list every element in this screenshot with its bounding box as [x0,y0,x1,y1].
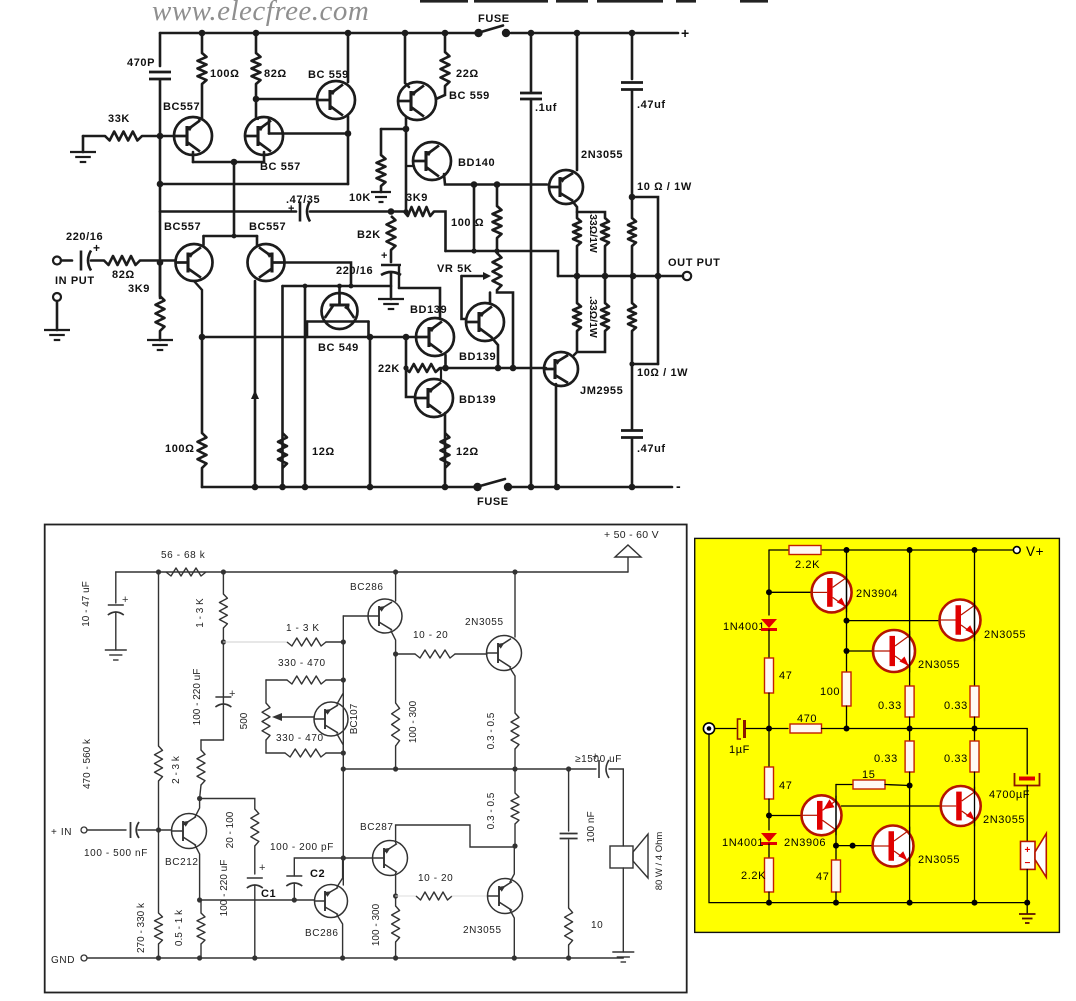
svg-text:−: − [1024,858,1030,869]
svg-text:10 Ω / 1W: 10 Ω / 1W [637,181,692,193]
svg-text:100Ω: 100Ω [210,68,240,80]
wire BC557 Q4 emitter down [194,281,202,337]
wire x836 column [835,785,837,861]
resistor 2.2K lower [765,858,774,892]
svg-text:12Ω: 12Ω [312,446,335,458]
svg-text:V+: V+ [1026,544,1044,559]
wire top rail 50-60V [116,571,628,573]
svg-text:BC287: BC287 [360,822,394,833]
svg-text:BC 557: BC 557 [260,161,301,173]
svg-text:80 W / 4 Ohm: 80 W / 4 Ohm [654,832,665,891]
svg-text:1µF: 1µF [729,744,750,756]
transistor BC557 Q4 [176,244,213,281]
svg-text:56 - 68 k: 56 - 68 k [161,550,206,561]
svg-text:2N3055: 2N3055 [918,854,960,866]
svg-text:B2K: B2K [357,229,381,241]
svg-text:IN PUT: IN PUT [55,275,95,287]
svg-text:+: + [288,203,295,215]
svg-text:100 - 220 uF: 100 - 220 uF [219,860,230,917]
svg-text:100Ω: 100Ω [165,443,195,455]
svg-text:+: + [122,594,129,606]
svg-text:82Ω: 82Ω [112,269,135,281]
wire left return [709,734,769,902]
wire x305 down [304,286,307,487]
output terminal [683,272,691,280]
svg-text:4700µF: 4700µF [989,789,1030,801]
svg-text:1 - 3 K: 1 - 3 K [195,598,206,628]
svg-text:10K: 10K [349,192,371,204]
svg-text:20 - 100: 20 - 100 [225,811,236,848]
wire output right column [1026,729,1028,775]
svg-text:.47uf: .47uf [637,99,666,111]
resistor 47 right [832,860,841,892]
svg-text:.1uf: .1uf [535,102,557,114]
svg-text:OUT PUT: OUT PUT [668,257,720,269]
wire 470-560k column top [158,572,160,746]
svg-text:2.2K: 2.2K [741,870,766,882]
ground at 33K [70,151,96,153]
input lower terminal [53,293,61,301]
svg-text:VR 5K: VR 5K [437,263,472,275]
svg-text:2N3055: 2N3055 [463,925,502,936]
resistor .33 upper a [573,218,581,246]
wire second pair emitter bar [204,235,258,238]
transistor BD139 Q8 [466,303,504,341]
wire collector link y798 [200,799,255,810]
wire y900 to BC286 lower [200,899,314,901]
wire mid rail [343,768,596,770]
wire x769 lower column [768,729,770,768]
svg-text:2N3055: 2N3055 [581,149,623,161]
resistor 47 upper [765,658,774,693]
svg-text:100 nF: 100 nF [586,811,597,842]
svg-text:0.33: 0.33 [874,753,898,765]
input terminal [53,257,61,265]
BD139 upper collector link [399,288,440,319]
svg-text:.47uf: .47uf [637,443,666,455]
VR5K wiper [462,275,485,278]
resistor 82ohm input [104,256,140,265]
svg-text:BC 559: BC 559 [308,69,349,81]
svg-text:330 - 470: 330 - 470 [276,733,324,744]
svg-text:10 - 47 uF: 10 - 47 uF [81,581,92,627]
svg-text:+: + [229,688,236,700]
svg-text:BC 559: BC 559 [449,90,490,102]
wire x282 down [281,286,284,487]
wire base 2N3055 mid [847,650,874,652]
svg-text:330 - 470: 330 - 470 [278,658,326,669]
wire bottom rail yellow [769,902,1027,904]
wire x406 vertical [405,117,408,212]
svg-text:0.33: 0.33 [878,700,902,712]
svg-text:100: 100 [820,686,840,698]
wire V+ top rail [769,549,1013,551]
svg-text:.33Ω/1W: .33Ω/1W [587,296,599,338]
svg-text:1 - 3 K: 1 - 3 K [286,623,320,634]
cropped text row at very top [420,0,468,3]
svg-text:33K: 33K [108,113,130,125]
wire base 2N3055 right [847,620,940,622]
wire 2N3055 emitter bar [573,202,577,218]
wire mid line [766,726,772,732]
ground input [44,329,70,331]
resistor 2.2K top [789,546,821,555]
svg-text:0.5 - 1 k: 0.5 - 1 k [174,909,185,946]
svg-text:470P: 470P [127,57,155,69]
svg-text:10 - 20: 10 - 20 [418,873,453,884]
wire top positive rail [160,32,474,35]
svg-text:+: + [381,250,388,262]
svg-text:0.3 - 0.5: 0.3 - 0.5 [486,792,497,829]
wire lower .33 join bar [577,331,605,352]
wire to BC559 base [256,98,317,101]
svg-text:+ 50 - 60 V: + 50 - 60 V [604,529,659,541]
wire left column upper [768,550,770,615]
svg-text:22K: 22K [378,363,400,375]
svg-text:100 - 200 pF: 100 - 200 pF [270,842,334,853]
wire x474 down [473,185,476,252]
svg-text:500: 500 [239,712,250,729]
resistor 0.33 ul [905,686,914,717]
svg-text:100 Ω: 100 Ω [451,217,484,229]
svg-text:+: + [1024,845,1030,856]
wire x255 down with arrow [254,281,257,487]
wire y184 horizontal [160,183,348,186]
wire center tail x234 [233,162,236,236]
wire BC287 collector Z [396,825,513,847]
svg-text:2 - 3 k: 2 - 3 k [171,755,182,784]
wire x909 column upper [909,550,911,686]
svg-text:100 - 500 nF: 100 - 500 nF [84,848,148,859]
border box [45,525,687,993]
svg-text:FUSE: FUSE [478,13,510,25]
wire BD139 lower emitter [444,413,447,487]
svg-text:www.elecfree.com: www.elecfree.com [152,0,369,27]
resistor .33 lower a [576,276,579,303]
svg-text:100 - 300: 100 - 300 [371,903,382,946]
wire BC557 Q5 base to right [285,263,352,287]
ground 3K9 [147,339,173,341]
wire BC559 emitter down x348 [347,116,350,184]
svg-text:1N4001: 1N4001 [722,837,764,849]
svg-text:GND: GND [51,955,75,966]
svg-text:3K9: 3K9 [128,283,150,295]
pot wiper arrow [276,716,314,718]
transistor 2N3904 [769,591,811,593]
svg-text:2N3055: 2N3055 [465,617,504,628]
svg-text:47: 47 [779,780,792,792]
wire y368 to JM2955 base [440,367,546,370]
svg-text:2N3055: 2N3055 [983,814,1025,826]
node dot 82ohm-BC559 base [253,96,260,103]
svg-text:BD139: BD139 [459,394,496,406]
resistor 470 [790,724,822,733]
svg-text:BC557: BC557 [163,101,200,113]
wire x909 lower column [909,729,911,742]
speaker yellow [1021,841,1036,869]
resistor 0.33 lr [970,741,979,772]
svg-text:82Ω: 82Ω [264,68,287,80]
wire collector link y134 [269,132,348,135]
svg-text:0.3 - 0.5: 0.3 - 0.5 [486,712,497,749]
svg-text:BC557: BC557 [249,221,286,233]
transistor 2N3906 [769,815,801,817]
wire y286 horizontal [283,285,392,288]
yellow panel [695,538,1060,932]
BC549 staple [307,320,369,323]
wire output line [558,275,683,278]
wire BC287 emitter [395,873,397,906]
svg-text:2.2K: 2.2K [795,559,820,571]
ground speaker [612,951,634,953]
wire left column x160 [159,33,162,66]
svg-text:.33Ω/1W: .33Ω/1W [587,211,599,253]
svg-text:+: + [592,751,599,763]
svg-text:BD140: BD140 [458,157,495,169]
svg-text:+: + [93,241,101,255]
svg-text:BD139: BD139 [410,304,447,316]
svg-text:3K9: 3K9 [406,192,428,204]
node dot B2K top [388,208,395,215]
resistor 100 [842,672,851,706]
wire x370 down [369,337,372,487]
wire x846 column [846,550,848,672]
speaker [610,846,633,868]
wire BD140 emitter to base rail [444,174,547,185]
resistor .33 upper b [601,218,609,246]
resistor 82ohm upper [255,33,258,53]
ground yellow [1026,903,1028,914]
svg-text:470: 470 [797,713,817,725]
resistor 0.33 ur [970,686,979,717]
resistor .33 lower b [604,276,607,303]
svg-text:2N3904: 2N3904 [856,588,898,600]
svg-text:12Ω: 12Ω [456,446,479,458]
wire 2N3906 emitter to mid 3055 base [842,805,941,807]
svg-text:10: 10 [591,920,603,931]
node dots on top rail [199,30,206,37]
resistor 100ohm upper [201,33,204,53]
transistor 2N3055 bottom mid [941,786,981,826]
resistor 0.33 ll [905,741,914,772]
svg-text:+ IN: + IN [51,827,72,838]
svg-text:1N4001: 1N4001 [723,621,765,633]
svg-text:JM2955: JM2955 [580,385,623,397]
svg-text:0.33: 0.33 [944,700,968,712]
wire x974 column upper [974,550,976,686]
wire rail to BC559 collector [347,33,350,82]
svg-text:C2: C2 [310,868,325,880]
svg-text:BC286: BC286 [305,928,339,939]
node dot feedback [157,133,164,140]
svg-text:+: + [681,25,690,41]
wire faint y642 [223,641,287,643]
svg-text:2N3906: 2N3906 [784,837,826,849]
wire bottom rail [202,486,474,489]
wire x974 lower column [974,729,976,742]
input terminal yellow [703,723,714,734]
svg-text:220/16: 220/16 [336,265,373,277]
svg-text:15: 15 [862,769,875,781]
svg-text:22Ω: 22Ω [456,68,479,80]
svg-text:10Ω / 1W: 10Ω / 1W [637,367,688,379]
ground 10K [371,191,391,193]
wire emitter join y162 [192,152,195,162]
svg-text:BC107: BC107 [349,703,360,734]
resistor 47 mid [765,767,774,799]
wire 10K top link [381,128,406,131]
svg-text:470 - 560 k: 470 - 560 k [82,738,93,789]
svg-text:BC286: BC286 [350,582,384,593]
svg-text:10 - 20: 10 - 20 [413,630,448,641]
wire x343 vertical [342,616,344,885]
terminal V+ [1013,547,1020,554]
transistor 2N3055 right top [940,600,981,641]
svg-text:-: - [676,478,681,494]
capacitor 220/16 input [80,251,83,271]
svg-text:0.33: 0.33 [944,753,968,765]
svg-text:100 - 220 uF: 100 - 220 uF [192,669,203,726]
svg-text:BD139: BD139 [459,351,496,363]
svg-text:BC557: BC557 [164,221,201,233]
svg-text:2N3055: 2N3055 [984,629,1026,641]
ground 220/16 [378,298,404,300]
svg-text:FUSE: FUSE [477,496,509,508]
wire y251 to output step [446,251,559,276]
svg-text:47: 47 [779,670,792,682]
svg-text:C1: C1 [261,888,276,900]
wire x405 to BD139 Q10 base [406,337,414,397]
svg-text:BC 549: BC 549 [318,342,359,354]
transistor 2N3055 mid top [873,630,915,672]
wire base bottom-left 3055 [836,845,873,847]
transistor BC557 Q5 [248,244,285,281]
wire y337 base line [202,336,416,339]
svg-text:BC212: BC212 [165,857,199,868]
svg-text:270 - 330 k: 270 - 330 k [136,902,147,953]
svg-text:+: + [259,862,266,874]
svg-text:100 - 300: 100 - 300 [408,700,419,743]
ground 10-47uF [105,649,127,651]
capacitor 4700uF [1015,773,1040,786]
svg-text:47: 47 [816,871,829,883]
transistor 2N3055 bottom left [873,826,914,867]
svg-text:2N3055: 2N3055 [918,659,960,671]
